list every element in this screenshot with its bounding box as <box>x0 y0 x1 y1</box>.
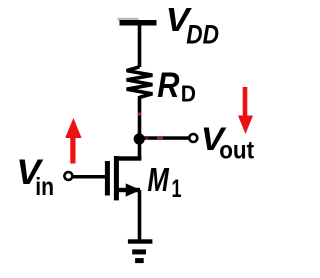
svg-text:R: R <box>157 65 179 104</box>
input terminal (open circle) <box>64 172 72 180</box>
svg-text:DD: DD <box>186 20 219 50</box>
svg-text:1: 1 <box>172 174 182 203</box>
svg-text:in: in <box>35 172 54 200</box>
label V_in <box>16 153 44 192</box>
wire resistor bottom to drain node <box>138 96 142 140</box>
source arrowhead <box>126 183 141 196</box>
transistor M1 channel bar <box>114 156 119 200</box>
red arrow down (at V_out) <box>243 87 248 117</box>
label M_1 <box>147 162 170 199</box>
ground symbol <box>128 239 152 243</box>
wire VDD bar to resistor top <box>138 24 142 67</box>
wire node to output terminal <box>139 136 189 140</box>
drain connection: horizontal then up to node <box>116 156 141 160</box>
svg-text:M: M <box>147 162 170 199</box>
label R_D <box>157 65 179 104</box>
VDD supply bar <box>120 20 157 26</box>
output terminal (open circle) <box>189 134 197 142</box>
source connection: horizontal with arrowhead, then down <box>116 188 140 192</box>
red artifact dash on output wire <box>157 137 163 140</box>
label V_out <box>201 122 227 157</box>
source vertical wire down to ground <box>138 190 142 242</box>
svg-text:out: out <box>219 136 254 164</box>
red artifact dash on wire <box>138 113 141 116</box>
label V_DD <box>166 2 193 39</box>
resistor RD <box>127 67 153 98</box>
red arrow up (at V_in) <box>65 118 81 138</box>
node dot (drain node) <box>134 133 145 144</box>
gate wire <box>73 175 106 179</box>
svg-text:D: D <box>181 80 196 106</box>
transistor M1 gate bar <box>105 161 110 196</box>
